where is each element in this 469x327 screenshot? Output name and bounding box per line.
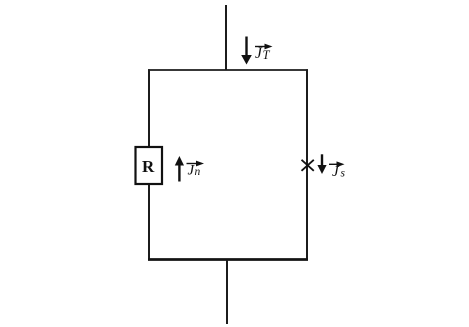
junction cross X [302,160,314,171]
svg-text:J: J [332,164,340,180]
wire loop left branch [148,69,150,260]
svg-text:R: R [142,157,155,176]
wire loop top segment [148,69,308,71]
current arrow JT [241,37,252,65]
svg-text:s: s [341,168,346,180]
wire top lead [225,5,227,70]
wire bottom lead [226,260,228,324]
wire loop bottom segment [148,258,308,261]
current arrow Js [317,154,326,174]
label JT [255,44,273,62]
label Jn [187,161,205,179]
wire loop right branch [306,69,308,260]
resistor R [136,147,163,184]
current arrow Jn [175,156,184,182]
svg-text:n: n [195,166,201,178]
svg-text:T: T [263,48,271,62]
label Js [329,161,346,180]
